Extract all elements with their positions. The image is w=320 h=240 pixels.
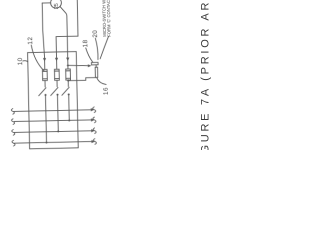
node: pole 3 lower contact: [68, 93, 70, 95]
wire: phase 3 from device circle bottom-right, curves to x=68.2: [60, 7, 68, 69]
wire: fuse F3 bottom stub: [67, 80, 69, 86]
arrow into micro-switch: [88, 64, 91, 67]
break squiggle right bus 4: [93, 139, 96, 145]
leader for ref 16: [97, 78, 106, 85]
leader from note text to micro-switch: [100, 36, 109, 58]
arrow right bus 4: [91, 140, 95, 143]
wire: pole 3 down to bus line 2: [68, 94, 71, 120]
node: pole 1 lower contact: [44, 94, 46, 96]
wire: fuse F1 bottom stub: [44, 81, 46, 87]
fuse F2: [54, 69, 59, 80]
leader for ref 10: [23, 61, 28, 62]
node: pole 2 lower contact: [56, 94, 58, 96]
leader for ref 18: [86, 48, 93, 62]
arrow on phase wire 2: [55, 58, 58, 61]
break squiggle right bus 3: [93, 128, 96, 134]
svg-text:18: 18: [82, 39, 89, 47]
enclosure box (disconnect, ref 10): [28, 52, 79, 149]
node: tap below fuse F3: [67, 80, 69, 82]
break squiggle left bus 1: [11, 109, 14, 115]
wire: upper tap to micro-switch: [68, 65, 89, 66]
svg-text:25: 25: [54, 3, 60, 9]
break squiggle right bus 1: [93, 107, 96, 113]
bus line 3: [14, 131, 93, 133]
leader for ref 12: [31, 45, 44, 71]
arrow on phase wire 3: [66, 58, 69, 61]
arrow right bus 3: [91, 129, 95, 132]
arrow right bus 1: [91, 108, 95, 111]
micro-switch actuator bar (ref 18): [91, 62, 98, 65]
break squiggle left bus 3: [12, 130, 15, 136]
arrow right bus 2: [91, 118, 95, 121]
leader for ref 20: [95, 38, 98, 60]
switch blade pole 3: [62, 87, 70, 95]
switch blade pole 1: [39, 88, 47, 96]
node: pole 2 on bus 3: [57, 130, 59, 132]
wire: phase 1 vertical (x=45) from top corner down into box: [42, 3, 45, 69]
fuse F1 (ref 12): [42, 69, 47, 80]
svg-text:FORM 'C' CONTACTS: FORM 'C' CONTACTS: [106, 0, 112, 37]
micro-switch plunger link: [95, 65, 97, 67]
svg-text:20: 20: [92, 30, 99, 38]
break squiggle left bus 2: [12, 119, 15, 125]
bus line 1: [14, 110, 93, 112]
break squiggle left bus 4: [12, 140, 15, 146]
wire: phase 2 riser exits top edge at x=79: [55, 0, 78, 69]
node: pole 1 on bus 4: [45, 141, 47, 143]
wire: top horizontal from device to phase wire 1: [42, 2, 50, 4]
bus line 2: [14, 120, 93, 122]
micro-switch body (ref 20): [95, 67, 98, 77]
svg-text:FIGURE 7A (PRIOR ART): FIGURE 7A (PRIOR ART): [200, 0, 212, 150]
wire: lower tap to micro-switch bottom: [68, 78, 95, 81]
svg-text:10: 10: [17, 57, 24, 65]
arrow on phase wire 1: [43, 58, 46, 61]
node: pole 3 on bus 2: [68, 119, 70, 121]
device circle (alarm/meter) top: [50, 0, 61, 8]
svg-text:12: 12: [27, 37, 34, 45]
fuse F3: [66, 69, 71, 80]
wire: fuse F2 bottom stub: [56, 80, 58, 86]
bus line 4: [15, 142, 94, 144]
node: tap above fuse F3: [67, 64, 69, 66]
wire: pole 2 down to bus line 3: [57, 95, 60, 132]
wire: pole 1 down to bus line 4: [45, 95, 48, 143]
svg-text:16: 16: [103, 87, 110, 95]
break squiggle right bus 2: [93, 117, 96, 123]
switch blade pole 2: [51, 87, 59, 95]
